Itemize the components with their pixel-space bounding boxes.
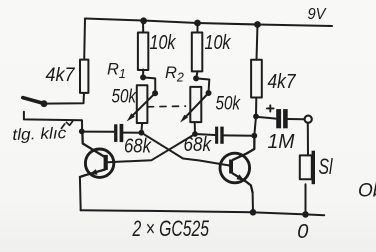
wire rail to R 4k7 left top <box>83 19 86 60</box>
potentiometer R2 50k body <box>190 87 201 122</box>
wire 10k first bottom <box>142 70 144 78</box>
wire node B to capacitor C2 <box>195 134 215 135</box>
wire Q2 emitter to bottom rail <box>252 193 254 213</box>
capacitor C2 right <box>215 127 224 144</box>
svg-text:4k7: 4k7 <box>268 70 297 93</box>
switch tlg key lever <box>23 98 44 104</box>
capacitor C1 left <box>114 124 123 142</box>
label tlg. klic <box>12 121 73 144</box>
svg-text:4k7: 4k7 <box>46 64 76 86</box>
wire rail stub to 10k second <box>197 23 199 33</box>
wire bottom 0 rail <box>81 210 325 215</box>
svg-text:0: 0 <box>297 221 308 243</box>
wire R2 bottom to node B <box>194 122 196 134</box>
wire 4k7 right bottom to nodes <box>254 98 256 136</box>
potentiometer R1 50k body <box>137 85 148 123</box>
potentiometer R2 wiper arrow <box>180 93 209 123</box>
svg-text:10k: 10k <box>205 32 232 54</box>
node bottom rail Sl <box>302 211 309 218</box>
svg-text:50k: 50k <box>112 86 137 108</box>
wire R1 bottom to node A <box>140 123 143 133</box>
svg-text:68k: 68k <box>124 135 152 157</box>
node rail 10k first <box>140 17 147 24</box>
wire C2 to collector node Q2 <box>224 134 255 136</box>
svg-text:50k: 50k <box>216 93 241 115</box>
svg-text:Ob: Ob <box>358 181 376 202</box>
node bottom rail Q2 <box>250 209 257 216</box>
node rail 10k second <box>194 20 201 27</box>
wire 9V top rail <box>85 19 332 27</box>
node wiper R1 <box>152 90 158 96</box>
svg-text:9V: 9V <box>308 6 328 23</box>
label plus of C3 <box>267 105 274 111</box>
node B right 68k junction <box>192 131 198 137</box>
wire wiper link R1 <box>143 77 155 93</box>
wire Sl to bottom rail <box>305 184 307 214</box>
node 10k/R2 junction <box>193 75 199 81</box>
node collector Q1 <box>79 129 85 135</box>
wire C1 to node A <box>123 132 141 134</box>
wire wiper link R2 <box>196 78 209 93</box>
wire key post to collector node <box>24 112 82 132</box>
node collector Q2 <box>251 133 257 139</box>
wire 10k second bottom <box>196 71 197 78</box>
potentiometer R1 wiper arrow <box>127 93 155 121</box>
capacitor C3 electrolytic 1M <box>276 109 288 128</box>
earphone Sl body <box>300 151 315 185</box>
node 10k/R1 junction <box>140 74 146 80</box>
resistor 4k7 right <box>251 60 262 98</box>
svg-text:1M: 1M <box>268 131 295 153</box>
wire Q1 emitter to bottom rail <box>79 177 82 210</box>
svg-text:tlg. klıc: tlg. klıc <box>12 125 67 144</box>
svg-text:Sl: Sl <box>319 154 334 179</box>
dashed gang link R1-R2 <box>148 105 186 108</box>
switch contact dot <box>41 100 48 107</box>
node rail 4k7 right <box>254 21 261 28</box>
svg-text:10k: 10k <box>150 32 177 54</box>
terminal output circle <box>305 116 312 123</box>
wire node to capacitor C3 <box>256 117 276 119</box>
node output junction <box>253 114 259 120</box>
wire Q2 base cross-coupling to node A <box>141 133 229 166</box>
wire Q1 base cross-coupling to node B <box>108 134 195 162</box>
wire 4k7 left bottom to switch <box>44 93 84 104</box>
node A left 68k junction <box>139 130 145 136</box>
wire C3 to output terminal <box>288 118 305 120</box>
resistor 10k first <box>138 33 148 71</box>
wire rail stub to 10k first <box>142 21 144 33</box>
node wiper R2 <box>206 90 212 96</box>
wire terminal to Sl <box>307 123 309 155</box>
svg-text:2 × GC525: 2 × GC525 <box>132 216 210 241</box>
transistor Q2 <box>220 136 254 193</box>
resistor 10k second <box>192 33 203 72</box>
svg-text:68k: 68k <box>184 134 212 156</box>
wire node to capacitor C1 <box>82 131 114 133</box>
resistor 4k7 left <box>80 60 88 93</box>
transistor Q1 <box>80 133 114 177</box>
wire rail stub to 4k7 right <box>257 25 258 60</box>
